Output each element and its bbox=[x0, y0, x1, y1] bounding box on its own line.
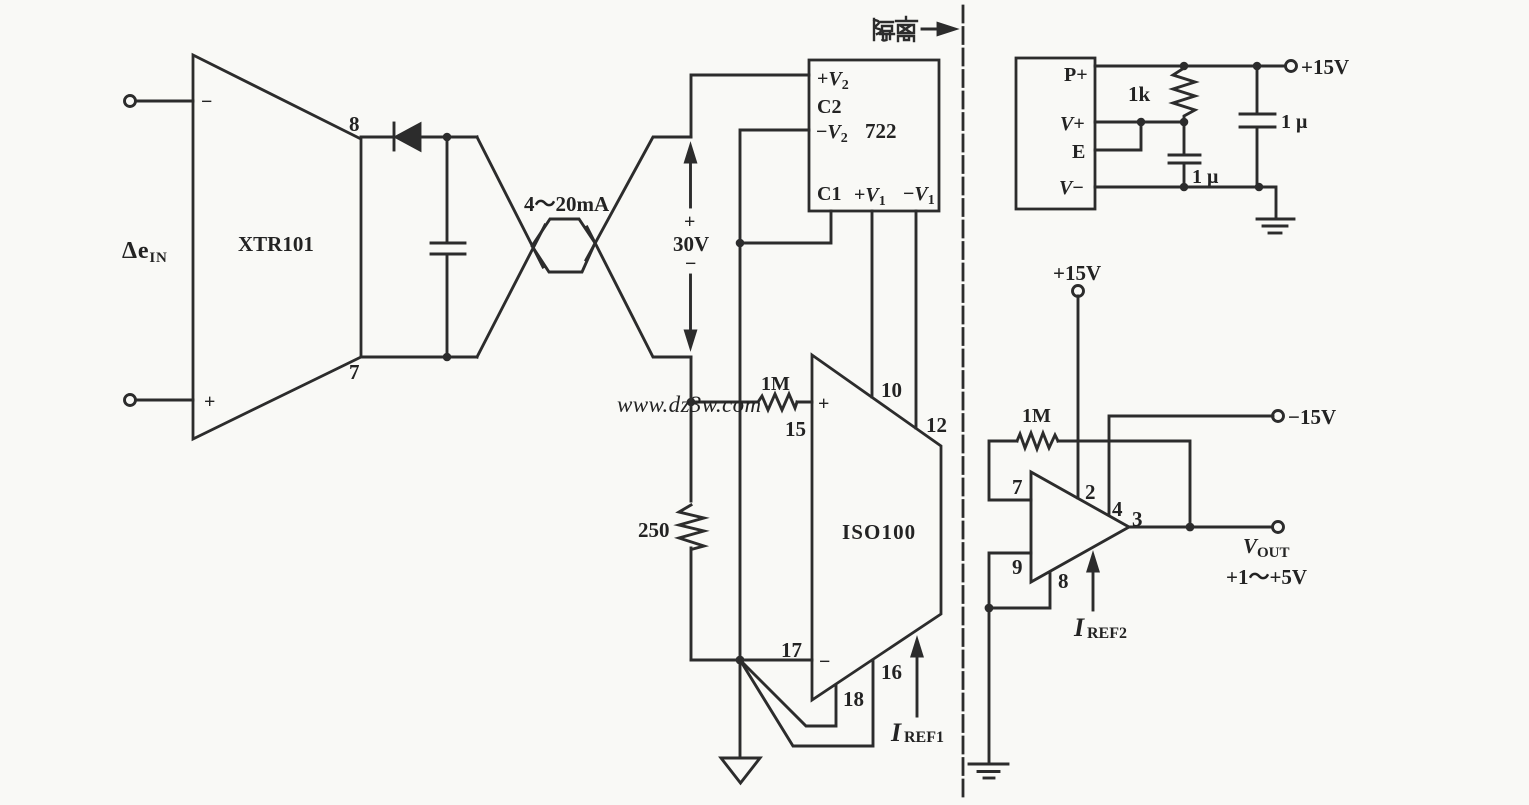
svg-text:8: 8 bbox=[349, 112, 360, 136]
svg-text:1M: 1M bbox=[761, 373, 790, 395]
capacitor C plates bbox=[431, 242, 465, 245]
wire pin 17 horizontal bbox=[691, 659, 812, 662]
svg-text:18: 18 bbox=[843, 687, 864, 711]
wire -V1 to pin 12 bbox=[915, 211, 918, 428]
svg-text:+15V: +15V bbox=[1301, 55, 1349, 79]
ground (chassis triangle) bbox=[721, 758, 760, 783]
terminal +15V (op-amp supply) bbox=[1073, 286, 1084, 297]
op-amp U4 triangle bbox=[1031, 472, 1129, 582]
svg-text:+15V: +15V bbox=[1053, 261, 1101, 285]
svg-text:www.dz3w.com: www.dz3w.com bbox=[617, 392, 762, 417]
svg-text:C1: C1 bbox=[817, 183, 841, 205]
node junction C1 tap bbox=[736, 239, 745, 248]
wire output bbox=[1129, 526, 1273, 529]
capacitor C top lead bbox=[446, 137, 449, 243]
wire resistor 250 to pin17 rail bbox=[690, 548, 693, 660]
power module box bbox=[1016, 58, 1095, 209]
node junction pin17 fan bbox=[736, 656, 745, 665]
svg-text:C2: C2 bbox=[817, 96, 841, 118]
svg-text:7: 7 bbox=[1012, 475, 1023, 499]
svg-text:2: 2 bbox=[1085, 480, 1096, 504]
node junction feedback/output bbox=[1186, 523, 1195, 532]
wire terminal top to XTR101 bbox=[136, 100, 193, 103]
node junction V+/E bbox=[1137, 118, 1146, 127]
svg-text:9: 9 bbox=[1012, 555, 1023, 579]
diode D1 bbox=[393, 123, 396, 150]
svg-text:15: 15 bbox=[785, 417, 806, 441]
svg-text:1k: 1k bbox=[1128, 82, 1151, 106]
terminal VOUT bbox=[1273, 522, 1284, 533]
wire pin 7 bottom bbox=[361, 356, 477, 359]
svg-text:−: − bbox=[819, 651, 830, 673]
node junction right cap bottom bbox=[1255, 183, 1264, 192]
wire diagonal from pin8 side down (crosses at hexagon left vertex) bbox=[477, 137, 543, 267]
svg-text:17: 17 bbox=[781, 638, 802, 662]
svg-text:722: 722 bbox=[865, 119, 897, 143]
earth ground bottom section bbox=[969, 763, 1008, 766]
wire E up to V+ bbox=[1095, 122, 1141, 150]
isolation arrow bbox=[922, 28, 940, 31]
svg-text:1M: 1M bbox=[1022, 405, 1051, 427]
svg-text:I: I bbox=[1073, 613, 1085, 642]
resistor R 1M (input) bbox=[758, 394, 797, 410]
wire -15V to pin 4 bbox=[1109, 416, 1273, 515]
wire V+ bbox=[1095, 121, 1184, 124]
wire 1M left to pin 7 bbox=[989, 441, 1031, 500]
node junction resistor bottom bbox=[1180, 118, 1189, 127]
wire 1M to + pin bbox=[797, 401, 812, 404]
capacitor 1u middle top lead bbox=[1183, 122, 1186, 155]
wire V- rail bbox=[1095, 186, 1259, 189]
wire +15V to pin 2 bbox=[1077, 296, 1080, 498]
node junction resistor top bbox=[1180, 62, 1189, 71]
wire pin 8 to diode bbox=[361, 136, 392, 139]
svg-text:4～20mA: 4～20mA bbox=[524, 192, 610, 216]
svg-text:7: 7 bbox=[349, 360, 360, 384]
wire to earth ground bbox=[1259, 187, 1276, 218]
svg-text:P+: P+ bbox=[1064, 64, 1088, 86]
svg-text:4: 4 bbox=[1112, 497, 1123, 521]
isolation boundary dashed line bbox=[962, 6, 965, 800]
node junction cap bottom bbox=[443, 353, 452, 362]
wire C1 connection bbox=[740, 211, 831, 243]
node junction + input tap bbox=[687, 398, 696, 407]
svg-text:250: 250 bbox=[638, 518, 670, 542]
svg-text:−: − bbox=[201, 91, 212, 113]
svg-text:+1～+5V: +1～+5V bbox=[1226, 565, 1307, 589]
resistor 1k bbox=[1173, 68, 1195, 119]
wire pin 9 bbox=[989, 553, 1031, 608]
resistor 250 bbox=[679, 505, 704, 549]
wire terminal bottom to XTR101 bbox=[136, 399, 193, 402]
wire diagonal to bottom right (crosses at hexagon right vertex) bbox=[587, 227, 691, 357]
svg-text:V+: V+ bbox=[1060, 113, 1085, 135]
svg-text:10: 10 bbox=[881, 378, 902, 402]
current IREF2 arrow bbox=[1092, 569, 1095, 610]
wire diagonal from pin7 side up (crosses at hexagon left vertex) bbox=[477, 225, 545, 357]
wire 1M right to output bbox=[1058, 441, 1190, 527]
svg-text:+: + bbox=[684, 211, 695, 233]
node junction cap top bbox=[443, 133, 452, 142]
input terminal top bbox=[125, 96, 136, 107]
wire P+ rail bbox=[1095, 65, 1286, 68]
wire fan to pin 18 bbox=[740, 660, 836, 726]
wire diode to node bbox=[420, 136, 477, 139]
op-amp U1 XTR101 body bbox=[193, 55, 361, 439]
capacitor 1u right top lead bbox=[1256, 66, 1259, 114]
svg-text:1 μ: 1 μ bbox=[1281, 111, 1308, 133]
earth ground top section bbox=[1257, 218, 1294, 221]
wire to ground bbox=[739, 660, 742, 758]
wire -V2 vertical rail bbox=[740, 130, 809, 660]
wire diagonal to top right (crosses at hexagon right vertex) bbox=[586, 137, 691, 260]
svg-text:12: 12 bbox=[926, 413, 947, 437]
svg-text:−15V: −15V bbox=[1288, 405, 1336, 429]
resistor 1M feedback bbox=[1017, 433, 1058, 449]
svg-text:1 μ: 1 μ bbox=[1192, 166, 1219, 188]
node junction cap mid bottom bbox=[1180, 183, 1189, 192]
30V annotation arrow up bbox=[689, 160, 692, 207]
wire pin 8 bbox=[989, 572, 1050, 608]
wire to earth ground bottom bbox=[988, 608, 991, 764]
terminal -15V bbox=[1273, 411, 1284, 422]
DC/DC converter U3 722 box bbox=[809, 60, 939, 211]
node junction right cap top bbox=[1253, 62, 1262, 71]
capacitor 1u middle plates bbox=[1169, 154, 1200, 157]
wire +V1 to pin 10 bbox=[871, 211, 874, 397]
svg-text:V−: V− bbox=[1059, 177, 1084, 199]
svg-text:REF1: REF1 bbox=[904, 729, 944, 746]
capacitor 1u right bottom lead bbox=[1256, 127, 1259, 187]
capacitor 1u middle bottom lead bbox=[1183, 163, 1186, 187]
svg-text:ISO100: ISO100 bbox=[842, 520, 916, 544]
svg-text:3: 3 bbox=[1132, 507, 1143, 531]
svg-text:+: + bbox=[204, 391, 215, 413]
label geli (isolation) characters bbox=[874, 17, 917, 41]
svg-text:REF2: REF2 bbox=[1087, 625, 1127, 642]
svg-text:8: 8 bbox=[1058, 569, 1069, 593]
node junction pin9/pin8/ground bbox=[985, 604, 994, 613]
svg-text:+: + bbox=[818, 393, 829, 415]
wire + input of ISO100 bbox=[691, 401, 758, 404]
current IREF1 arrow bbox=[916, 654, 919, 716]
capacitor C bottom lead bbox=[446, 254, 449, 357]
wire bus down from bottom X to resistor 250 bbox=[690, 357, 693, 501]
terminal +15V bbox=[1286, 61, 1297, 72]
svg-text:16: 16 bbox=[881, 660, 902, 684]
wire fan to pin 16 bbox=[740, 660, 873, 746]
input terminal bottom bbox=[125, 395, 136, 406]
svg-text:−: − bbox=[685, 253, 696, 275]
svg-text:E: E bbox=[1072, 141, 1085, 163]
isolation amp U2 ISO100 body bbox=[812, 355, 941, 700]
svg-text:XTR101: XTR101 bbox=[238, 232, 314, 256]
wire bus up to +V2 bbox=[691, 75, 809, 137]
svg-text:I: I bbox=[890, 718, 902, 747]
current loop hexagon 4~20mA bbox=[532, 219, 595, 272]
30V annotation arrow down bbox=[689, 275, 692, 332]
capacitor 1u right plates bbox=[1240, 113, 1275, 116]
